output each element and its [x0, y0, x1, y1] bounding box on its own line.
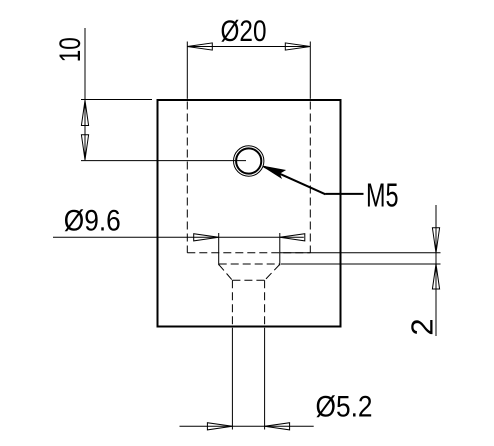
extension line left for O9.6 dim / neck wall: [218, 233, 220, 265]
hidden chamfer left: [219, 264, 233, 280]
svg-text:Ø9.6: Ø9.6: [64, 205, 121, 238]
hidden stem top: [232, 279, 264, 281]
hidden slot flange wall right: [309, 102, 311, 253]
dimension line 2 (vertical): [435, 205, 437, 336]
arrow right-pointing (O5.2 left): [207, 423, 232, 430]
svg-text:10: 10: [54, 37, 87, 62]
extension line bottom for 2 dim: [281, 263, 441, 265]
svg-text:Ø5.2: Ø5.2: [316, 391, 373, 424]
arrow down (10 dim): [81, 135, 88, 160]
extension line left for O5.2 dim: [231, 328, 233, 430]
arrow left-pointing (O9.6 right): [280, 234, 305, 241]
svg-text:M5: M5: [366, 176, 399, 213]
hidden slot flange bottom: [187, 252, 310, 254]
part body outline: [158, 100, 341, 327]
hidden stem wall right: [264, 280, 266, 325]
extension line right for O9.6 dim / neck wall: [279, 233, 281, 265]
extension line top for 2 dim: [280, 252, 441, 254]
leader arrow to hole (M5): [263, 166, 285, 178]
arrow left-pointing (O5.2 right): [265, 423, 290, 430]
centerline through hole / extension line for 10 dim: [81, 160, 246, 162]
extension line right for O5.2 dim: [264, 328, 266, 430]
arrow down (2 dim): [432, 228, 439, 253]
svg-text:2: 2: [405, 318, 440, 335]
arrow right-pointing (O9.6 left): [194, 234, 219, 241]
tapped hole M5 thread outer circle: [234, 146, 264, 176]
arrow left (O20 dim): [187, 43, 212, 50]
leader line diagonal: [264, 167, 326, 195]
extension line top for 10 dim: [81, 99, 152, 101]
arrow up (10 dim): [81, 101, 88, 126]
dimension line O20: [187, 46, 310, 48]
arrow right (O20 dim): [285, 43, 310, 50]
leader line horizontal: [326, 193, 364, 195]
hidden stem wall left: [231, 280, 233, 325]
svg-text:Ø20: Ø20: [221, 15, 267, 48]
dimension line 10 (vertical): [84, 28, 86, 160]
dimension line O9.6: [53, 236, 304, 238]
arrow up (2 dim): [432, 264, 439, 289]
dimension line O5.2: [180, 425, 314, 427]
hidden slot flange wall left: [186, 102, 188, 253]
extension line left for O20 dim: [186, 42, 188, 99]
extension line right for O20 dim: [309, 42, 311, 99]
hidden chamfer right: [265, 264, 280, 280]
tapped hole M5 inner circle: [236, 148, 261, 173]
hidden neck bottom: [219, 263, 280, 265]
